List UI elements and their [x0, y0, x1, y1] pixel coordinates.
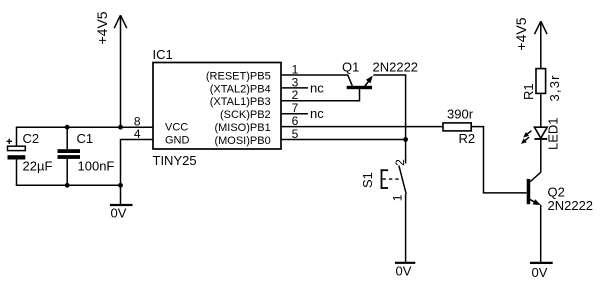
- svg-text:GND: GND: [165, 134, 190, 146]
- node junction dot gnd drop: [118, 183, 123, 188]
- node junction dot C1 bottom: [65, 183, 70, 188]
- svg-text:2N2222: 2N2222: [373, 60, 419, 75]
- svg-text:C2: C2: [23, 131, 40, 146]
- resistor R1: [521, 69, 562, 102]
- svg-text:+4V5: +4V5: [513, 17, 529, 50]
- wire Q2 emitter to ground: [540, 205, 542, 262]
- wire R2 to Q2 base: [471, 127, 527, 193]
- svg-text:nc: nc: [310, 106, 324, 121]
- svg-text:100nF: 100nF: [78, 158, 115, 173]
- wire pin6 to R2: [281, 126, 443, 128]
- svg-text:LED1: LED1: [546, 117, 561, 150]
- svg-text:(MISO)PB1: (MISO)PB1: [214, 122, 270, 134]
- node junction dot pin5/S1: [403, 137, 408, 142]
- node junction dot +4V5 drop: [118, 125, 123, 130]
- svg-text:3,3r: 3,3r: [547, 74, 562, 101]
- resistor R2: [443, 107, 475, 146]
- wire pin3 nc stub: [281, 87, 308, 89]
- svg-text:0V: 0V: [396, 263, 412, 278]
- wire pin5: [281, 139, 406, 141]
- svg-text:(RESET)PB5: (RESET)PB5: [206, 70, 271, 82]
- svg-text:0V: 0V: [532, 265, 548, 280]
- svg-text:390r: 390r: [447, 107, 474, 122]
- svg-text:(XTAL2)PB4: (XTAL2)PB4: [210, 83, 271, 95]
- ground 0V under Q2: [530, 263, 553, 280]
- svg-text:2N2222: 2N2222: [548, 198, 594, 213]
- power +4V5 right arrow: [535, 21, 548, 68]
- svg-text:S1: S1: [360, 172, 375, 188]
- node junction dot C1 top: [65, 125, 70, 130]
- svg-text:R1: R1: [521, 83, 536, 100]
- svg-text:1: 1: [390, 194, 404, 201]
- wire pin7 nc stub: [281, 113, 308, 115]
- svg-text:VCC: VCC: [165, 122, 188, 134]
- svg-text:22µF: 22µF: [23, 158, 53, 173]
- transistor Q2: [527, 172, 541, 205]
- svg-text:C1: C1: [77, 131, 94, 146]
- LED LED1: [521, 117, 561, 150]
- capacitor C1: [58, 127, 115, 185]
- transistor Q1: [347, 76, 373, 90]
- wire bottom rail: [16, 184, 121, 186]
- wire Q1 emitter to S1 column: [373, 75, 405, 164]
- svg-text:(SCK)PB2: (SCK)PB2: [220, 109, 271, 121]
- svg-text:TINY25: TINY25: [153, 153, 197, 168]
- svg-text:0V: 0V: [111, 206, 127, 221]
- wire GND pin4 to ground: [121, 140, 154, 205]
- wire S1 to ground: [405, 194, 407, 262]
- power +4V5 left arrow: [114, 15, 127, 127]
- ground 0V left: [110, 205, 133, 221]
- svg-text:Q1: Q1: [342, 60, 359, 75]
- svg-text:+4V5: +4V5: [94, 11, 110, 44]
- wire pin2 to Q1 base: [281, 89, 360, 101]
- svg-text:(MOSI)PB0: (MOSI)PB0: [214, 135, 270, 147]
- wire R1 to LED1: [540, 93, 542, 127]
- wire LED1 to Q2 collector: [540, 140, 542, 172]
- svg-text:nc: nc: [310, 80, 324, 95]
- svg-text:(XTAL1)PB3: (XTAL1)PB3: [210, 96, 271, 108]
- svg-text:IC1: IC1: [153, 47, 173, 62]
- wire pin1 to Q1 collector: [281, 75, 352, 86]
- op-amp IC1 box: [153, 63, 281, 150]
- svg-text:R2: R2: [459, 131, 476, 146]
- svg-text:4: 4: [134, 127, 141, 141]
- switch S1: [360, 159, 407, 201]
- wire VCC top rail (pin 8 net): [16, 126, 153, 128]
- ground 0V under S1: [395, 263, 415, 279]
- capacitor C2: [7, 127, 53, 185]
- svg-text:2: 2: [393, 159, 407, 166]
